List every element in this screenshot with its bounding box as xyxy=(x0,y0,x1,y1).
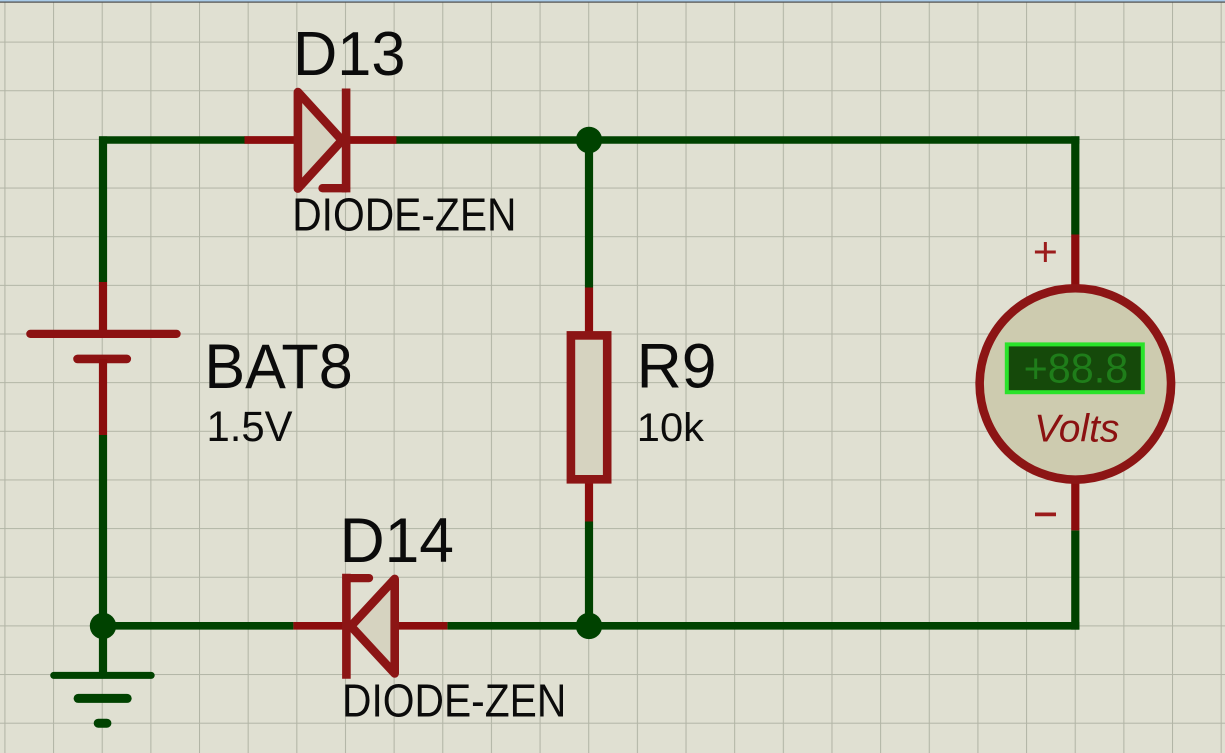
wire: middle vertical lower (R9 to bottom) xyxy=(585,522,593,627)
pin left xyxy=(245,136,299,144)
pin top xyxy=(585,288,593,334)
pin left xyxy=(293,622,347,630)
wire: top horizontal left segment xyxy=(99,136,245,144)
display xyxy=(1007,344,1143,392)
wire: left vertical upper xyxy=(99,136,107,282)
svg-text:Volts: Volts xyxy=(1034,408,1119,451)
battery BAT8 xyxy=(30,282,176,435)
svg-text:D14: D14 xyxy=(340,506,454,576)
wire: right vertical lower (voltmeter - to bottom) xyxy=(1071,530,1079,629)
window top edge strip xyxy=(0,0,1225,2)
svg-text:D13: D13 xyxy=(293,20,406,89)
pin bottom xyxy=(99,359,107,435)
triangle body xyxy=(298,92,342,189)
minus terminal mark xyxy=(1035,513,1056,517)
ground xyxy=(54,626,152,723)
zener foot xyxy=(346,574,369,582)
wire: bottom horizontal left segment xyxy=(103,622,293,630)
pin bottom xyxy=(585,481,593,522)
wire: left vertical lower xyxy=(99,435,107,626)
svg-text:1.5V: 1.5V xyxy=(207,403,294,450)
pin right xyxy=(346,136,396,144)
svg-text:R9: R9 xyxy=(637,332,717,402)
diode D13 (zener, pointing right) xyxy=(245,92,397,189)
node junction dot bottom left xyxy=(90,613,116,639)
svg-text:DIODE-ZEN: DIODE-ZEN xyxy=(292,189,516,241)
wire: middle vertical upper (node to R9) xyxy=(585,140,593,288)
svg-text:+88.8: +88.8 xyxy=(1024,345,1129,392)
svg-text:BAT8: BAT8 xyxy=(204,332,352,402)
node junction dot bottom middle xyxy=(576,613,602,639)
wire: bottom horizontal right segment xyxy=(447,622,1079,630)
resistor R9 xyxy=(571,288,607,522)
diode D14 (zener, pointing left) xyxy=(293,578,447,674)
zener foot xyxy=(323,184,347,192)
svg-text:DIODE-ZEN: DIODE-ZEN xyxy=(342,675,566,727)
pin bottom xyxy=(1071,477,1079,530)
pin right xyxy=(391,622,447,630)
cathode bar xyxy=(342,578,351,674)
short plate xyxy=(78,355,127,364)
pin top xyxy=(1071,235,1079,293)
cathode bar xyxy=(342,93,351,188)
wire: right vertical upper (to voltmeter +) xyxy=(1071,136,1079,234)
meter circle xyxy=(980,288,1171,479)
long plate xyxy=(30,330,176,338)
pin top xyxy=(99,282,107,334)
voltmeter xyxy=(980,235,1171,531)
body box xyxy=(571,335,607,479)
svg-text:10k: 10k xyxy=(637,406,705,450)
triangle body xyxy=(351,579,395,674)
node junction dot top middle xyxy=(576,127,602,153)
plus terminal mark xyxy=(1035,242,1056,262)
wire: top horizontal right segment xyxy=(396,136,1079,144)
